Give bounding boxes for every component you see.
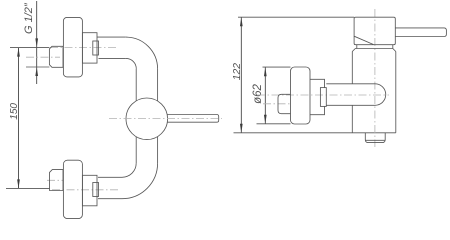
arrowhead 150 top (up) <box>17 48 20 57</box>
pipe bottom horizontal edges <box>98 176 122 178</box>
baseline bottom (122 reference / body bottom) <box>234 132 396 134</box>
svg-text:G 1/2″: G 1/2″ <box>23 2 35 34</box>
dimension line 122 <box>240 17 242 133</box>
arrowhead G1/2 bottom (up) <box>35 67 38 76</box>
extension line ø62 top <box>263 66 291 68</box>
hex nut bottom <box>50 170 64 191</box>
extension line bottom connection <box>6 187 50 189</box>
dimension line 150 <box>18 48 20 189</box>
ring right view <box>320 88 326 107</box>
centerline bottom connection main axis <box>52 189 118 191</box>
arrowhead 122 bottom (down) <box>240 124 243 133</box>
dimension line ø62 <box>264 67 266 124</box>
flange (escutcheon) right view <box>291 67 311 124</box>
flange (escutcheon) top <box>63 17 82 77</box>
outlet nut lip line <box>365 139 385 141</box>
lever cap right view <box>354 17 395 45</box>
leader line G1/2 (continuous through stub) <box>36 1 38 84</box>
hex nut right view <box>278 94 291 113</box>
centerline top stub (eccentric axis) <box>26 56 60 58</box>
dimension text 150 <box>9 103 20 120</box>
svg-text:ø62: ø62 <box>252 83 264 103</box>
arrowhead G1/2 top (down) <box>35 38 38 47</box>
dimension text G 1/2" <box>23 2 35 34</box>
flange (escutcheon) bottom <box>63 160 82 218</box>
pipe stadium right view <box>326 84 385 106</box>
centerline bottom stub (eccentric axis) <box>47 179 64 181</box>
shower outlet nut bottom of body <box>365 133 385 143</box>
centerline lever axis <box>109 118 222 120</box>
elbow top (outer and inner arcs) <box>126 37 158 69</box>
pipe top horizontal edges <box>97 36 126 38</box>
extension line ø62 bottom <box>257 123 291 125</box>
arrowhead ø62 bottom (down) <box>264 115 267 124</box>
extension line top connection (stub top edge extended) <box>10 47 49 49</box>
lever cap diagonal face line <box>354 36 373 44</box>
eccentric axis centerline right view <box>263 103 290 105</box>
mixer body circle <box>126 98 168 140</box>
main pipe axis centerline right view <box>257 94 389 96</box>
vertical body centerline right view <box>374 9 376 147</box>
centerline top connection main axis <box>50 47 118 49</box>
hex nut top <box>49 46 63 67</box>
connector body bottom <box>82 175 97 206</box>
extension line 122 top <box>238 16 354 18</box>
body top edge with chamfers <box>352 49 396 52</box>
elbow bottom (outer and inner arcs) <box>122 163 158 199</box>
dimension text 122 <box>232 63 243 80</box>
lever handle rod <box>167 115 219 123</box>
ring top <box>93 41 99 55</box>
dimension text ø62 <box>252 83 264 103</box>
vertical pipe segments <box>135 69 137 101</box>
faucet body right view <box>351 52 353 84</box>
ring bottom <box>93 183 99 197</box>
neck between cap and body <box>356 45 358 49</box>
arrowhead 150 bottom (down) <box>17 179 20 188</box>
arrowhead ø62 top (up) <box>264 67 267 76</box>
lever rod right view <box>395 28 446 37</box>
connector body top <box>82 33 97 63</box>
connector body right view <box>310 79 325 114</box>
stub bottom edge top connection <box>26 66 49 68</box>
arrowhead 122 top (up) <box>240 17 243 26</box>
